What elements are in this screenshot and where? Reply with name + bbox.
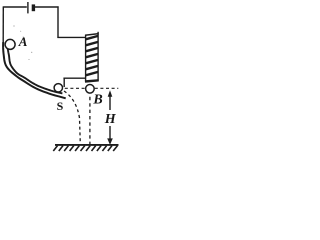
up arrowhead	[108, 90, 113, 97]
coil right edge	[97, 32, 99, 81]
wire left vertical down to track start	[2, 6, 4, 43]
svg-text:S: S	[57, 99, 64, 113]
coil winding turn 2	[86, 42, 99, 45]
coil winding turn 5	[86, 60, 99, 63]
ball B under electromagnet	[86, 85, 95, 94]
dashed fall line below B	[89, 97, 91, 144]
coil winding turn 4	[86, 54, 99, 57]
coil winding turn 1	[86, 36, 99, 39]
track inner rail	[7, 44, 62, 93]
ground line	[55, 144, 119, 146]
coil top edge	[85, 34, 99, 36]
ground hatching	[53, 146, 117, 151]
coil winding turn 3	[86, 48, 99, 51]
coil bottom edge	[85, 80, 99, 81]
coil L1 left edge	[85, 35, 87, 82]
wire from coil bottom to contact	[63, 77, 85, 79]
svg-text:B: B	[92, 92, 102, 107]
dashed projectile trajectory from S	[64, 91, 80, 144]
coil winding turn 6	[86, 66, 99, 69]
ball A on track	[5, 39, 15, 49]
height arrow lower segment with down arrowhead	[109, 126, 111, 143]
wire from battery to right corner	[35, 6, 59, 8]
wire top-left horizontal from corner to battery	[3, 6, 26, 8]
battery long plate	[27, 2, 29, 13]
ball at S (launch point)	[54, 84, 62, 92]
down arrowhead	[107, 138, 113, 145]
track outer rail (curved ramp)	[3, 42, 66, 98]
battery short thick plate	[32, 4, 35, 11]
coil winding turn 7	[86, 72, 99, 75]
wire to coil	[57, 36, 85, 38]
wire right vertical down	[57, 6, 59, 38]
scan speckles	[13, 25, 32, 60]
svg-text:H: H	[104, 112, 117, 127]
contact stub down to ball at S	[63, 78, 65, 87]
svg-text:A: A	[18, 34, 28, 49]
dashed horizontal sight line S to B and beyond	[65, 87, 119, 89]
height arrow upper segment with up arrowhead	[109, 93, 111, 111]
